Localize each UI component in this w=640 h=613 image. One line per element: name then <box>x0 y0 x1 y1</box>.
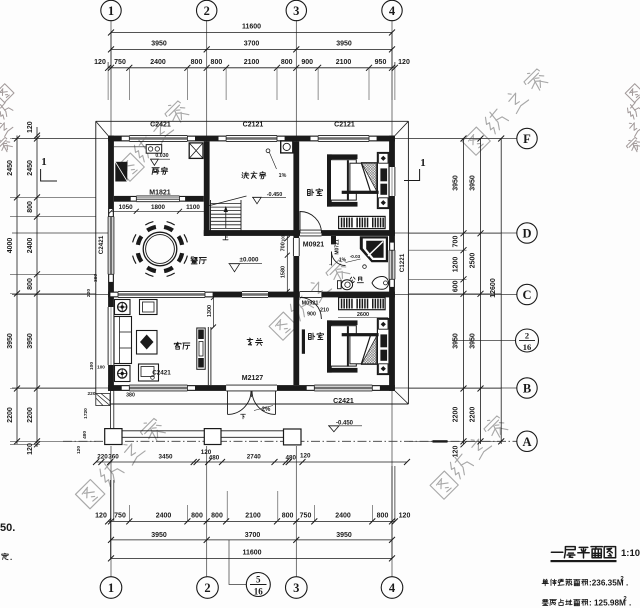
svg-text:1100: 1100 <box>186 204 200 211</box>
svg-text:: 125.98M: : 125.98M <box>589 599 626 608</box>
svg-text:3950: 3950 <box>453 175 460 191</box>
hall TV unit and partition <box>197 328 205 369</box>
svg-text:F: F <box>523 132 531 146</box>
watermark left edge <box>0 84 14 103</box>
svg-text:800: 800 <box>27 201 34 213</box>
svg-text:950: 950 <box>375 59 387 66</box>
svg-text:C2421: C2421 <box>152 370 171 377</box>
svg-text:C2121: C2121 <box>243 122 264 129</box>
svg-text:800: 800 <box>377 512 389 519</box>
svg-text:5: 5 <box>256 575 261 585</box>
svg-text:D: D <box>522 227 531 241</box>
svg-text:120: 120 <box>76 446 82 454</box>
svg-text:12600: 12600 <box>490 278 497 298</box>
svg-text:M0921: M0921 <box>302 301 319 307</box>
svg-text:120: 120 <box>94 59 106 66</box>
svg-text:1300: 1300 <box>207 305 213 317</box>
eave outline <box>96 120 409 122</box>
svg-text:3950: 3950 <box>470 333 477 349</box>
svg-text:220: 220 <box>86 289 92 297</box>
svg-text:M0921: M0921 <box>303 242 325 249</box>
svg-text:1200: 1200 <box>453 257 460 273</box>
wardrobe bedroom 2 <box>339 298 386 310</box>
svg-text:3950: 3950 <box>453 333 460 349</box>
axis bubble F right <box>517 128 537 148</box>
section bubble 5/16 bottom <box>246 573 270 597</box>
svg-text:100: 100 <box>280 234 285 242</box>
svg-text:2740: 2740 <box>247 454 262 461</box>
svg-text:1: 1 <box>41 156 47 168</box>
svg-text:C2421: C2421 <box>98 235 105 254</box>
svg-text:1050: 1050 <box>119 204 134 211</box>
svg-text:480: 480 <box>285 455 296 462</box>
svg-text:3950: 3950 <box>7 333 14 349</box>
svg-text:2200: 2200 <box>453 407 460 423</box>
svg-text:800: 800 <box>191 59 203 66</box>
watermark diagonal top-right <box>462 127 490 155</box>
bed bedroom 2 <box>377 319 389 375</box>
axis bubble 2 bottom <box>197 577 219 599</box>
svg-text:120: 120 <box>300 453 311 460</box>
left dimension columns <box>16 136 18 445</box>
svg-text:360: 360 <box>108 454 119 461</box>
svg-text:3950: 3950 <box>27 333 34 349</box>
svg-text:220: 220 <box>87 391 95 397</box>
watermark diagonal center <box>269 312 297 340</box>
svg-text:3700: 3700 <box>244 40 260 47</box>
interior wall kitchen south with sliding door M1821 <box>114 196 136 202</box>
svg-text:2100: 2100 <box>244 59 260 66</box>
label laundry <box>242 172 249 178</box>
watermark diagonal top-left <box>116 153 144 181</box>
svg-text:1%: 1% <box>279 173 287 179</box>
label bedroom 1 <box>308 189 314 195</box>
stairs <box>210 200 212 231</box>
svg-text:750: 750 <box>114 59 126 66</box>
top dimension rows <box>111 32 392 34</box>
svg-text:750: 750 <box>300 512 312 519</box>
section line 2-16 <box>452 340 516 342</box>
right dimension columns <box>463 139 465 445</box>
watermark diagonal bottom-right <box>430 471 458 499</box>
dining round table with chairs <box>143 232 177 266</box>
svg-text:2100: 2100 <box>336 59 352 66</box>
label dining <box>191 257 197 264</box>
svg-text:.: . <box>629 599 631 608</box>
svg-text:2600: 2600 <box>357 312 369 318</box>
svg-text:0.030: 0.030 <box>155 153 168 159</box>
svg-text:700: 700 <box>453 236 460 248</box>
interior wall axis 3 with bathroom door opening <box>293 141 299 238</box>
svg-text:3700: 3700 <box>245 532 261 539</box>
kitchen fixtures (flue, hob, fridge, level mark) <box>189 143 203 159</box>
svg-text:2100: 2100 <box>245 512 261 519</box>
watermark right edge <box>625 84 640 103</box>
svg-text:800: 800 <box>282 512 294 519</box>
svg-text:1720: 1720 <box>83 408 89 419</box>
interior wall D axis with door M0921 <box>204 230 300 236</box>
svg-text:800: 800 <box>191 512 203 519</box>
axis line C <box>12 294 108 296</box>
axis bubble A right <box>517 431 537 451</box>
exterior wall bottom (B axis) with windows and entrance M2127 <box>108 385 129 391</box>
svg-text:2200: 2200 <box>7 407 14 423</box>
svg-text:M1821: M1821 <box>149 190 171 197</box>
svg-text:2450: 2450 <box>27 160 34 176</box>
svg-text:1: 1 <box>420 157 426 169</box>
axis bubble 1 top <box>101 0 121 20</box>
svg-text:120: 120 <box>453 446 460 458</box>
svg-text:120: 120 <box>95 512 107 519</box>
hall dim 1300 <box>213 297 215 327</box>
axis line 3 <box>295 20 297 141</box>
axis bubble D right <box>517 223 537 243</box>
svg-text:800: 800 <box>211 59 223 66</box>
svg-text:C2421: C2421 <box>150 122 171 129</box>
section line 5-16 connector <box>229 540 246 585</box>
svg-text:1800: 1800 <box>151 204 166 211</box>
svg-text::236.35M: :236.35M <box>589 579 624 588</box>
svg-text:900: 900 <box>307 312 316 318</box>
axis bubble 3 top <box>286 0 306 20</box>
section bubble 2/16 right <box>516 329 539 352</box>
svg-text:±0.000: ±0.000 <box>240 257 259 264</box>
entrance double door M2127 with swing <box>228 391 252 415</box>
svg-text:3950: 3950 <box>336 532 352 539</box>
svg-text:3: 3 <box>293 4 299 18</box>
svg-text:380: 380 <box>126 392 135 398</box>
interior wall axis 2 (kitchen/laundry divider) <box>204 141 210 236</box>
title block 一层平面图 1:100 <box>551 551 562 553</box>
svg-text:11600: 11600 <box>242 549 261 556</box>
svg-text:3: 3 <box>293 581 299 595</box>
svg-text:120: 120 <box>399 512 411 519</box>
bed bedroom 1 <box>377 153 389 209</box>
bathroom fixtures (shower, toilet, sink, drain) <box>360 236 388 262</box>
axis line F <box>12 138 108 140</box>
svg-text:M0721: M0721 <box>335 239 341 255</box>
exterior wall top (F axis) with windows C2421/C2121/C2121 <box>108 136 129 142</box>
wardrobe bedroom 1 <box>339 216 386 228</box>
label living room <box>174 342 181 349</box>
svg-text:2: 2 <box>204 581 210 595</box>
terrace edge dash <box>433 440 448 442</box>
svg-text:3950: 3950 <box>470 175 477 191</box>
svg-text:800: 800 <box>281 59 293 66</box>
svg-text:2400: 2400 <box>150 59 166 66</box>
bathroom stub wall <box>331 236 336 245</box>
svg-text:2: 2 <box>525 331 529 341</box>
svg-text:220: 220 <box>97 454 108 461</box>
axis bubble C right <box>517 284 537 304</box>
svg-text:480: 480 <box>82 431 88 439</box>
svg-text:600: 600 <box>453 280 460 292</box>
svg-text:3450: 3450 <box>158 454 173 461</box>
axis line D <box>12 232 108 234</box>
svg-text:1580: 1580 <box>280 266 286 278</box>
living room furniture (sofa set, tables) <box>115 300 131 315</box>
axis bubble 1 bottom <box>100 577 122 599</box>
axis bubble 2 top <box>197 0 217 20</box>
svg-text:16: 16 <box>523 342 532 352</box>
svg-text:2400: 2400 <box>27 238 34 254</box>
svg-text:.: . <box>10 553 12 562</box>
interior wall C axis with opening/pass and door M0921 <box>108 292 118 298</box>
label bedroom 2 <box>309 333 315 339</box>
kitchen dim row <box>111 210 207 212</box>
svg-text:4: 4 <box>389 581 396 595</box>
laundry fixtures (washer, drain) <box>281 141 293 153</box>
left edge text 定. <box>2 553 8 560</box>
svg-text:2450: 2450 <box>7 160 14 176</box>
svg-text:1:100: 1:100 <box>621 548 640 559</box>
svg-text:C1221: C1221 <box>399 253 406 272</box>
porch slab and columns <box>105 430 301 432</box>
svg-text:4: 4 <box>389 4 396 18</box>
svg-text:1%: 1% <box>339 258 347 264</box>
door M0921 bedroom 2 swing <box>300 297 322 319</box>
svg-text:3950: 3950 <box>151 40 167 47</box>
bottom dimension rows <box>96 461 407 463</box>
svg-text:A: A <box>522 435 531 449</box>
svg-text:16: 16 <box>254 587 264 597</box>
axis bubble 3 bottom <box>286 577 308 599</box>
svg-text:120: 120 <box>27 443 34 455</box>
svg-text:120: 120 <box>398 59 410 66</box>
svg-text:210: 210 <box>320 308 329 314</box>
svg-text:C2421: C2421 <box>333 398 354 405</box>
svg-text:B: B <box>523 382 531 396</box>
svg-text:800: 800 <box>27 278 34 290</box>
axis bubble B right <box>517 378 537 398</box>
axis line 4 <box>391 20 393 136</box>
svg-text:2200: 2200 <box>470 407 477 423</box>
svg-text:100: 100 <box>89 362 95 370</box>
exterior wall left (axis 1) with window C2421 <box>108 136 114 217</box>
svg-text:120: 120 <box>27 121 34 133</box>
svg-text:3950: 3950 <box>336 40 352 47</box>
svg-text:-0.03: -0.03 <box>350 254 361 259</box>
label bathroom <box>350 277 355 282</box>
svg-text:C: C <box>522 288 531 302</box>
svg-text:2400: 2400 <box>156 512 172 519</box>
svg-text:M2127: M2127 <box>242 375 264 382</box>
axis line 1 <box>110 20 112 136</box>
watermark diagonal bottom-left <box>76 480 105 509</box>
svg-text:2: 2 <box>204 4 210 18</box>
svg-text:3950: 3950 <box>151 532 167 539</box>
svg-text:50.: 50. <box>0 522 15 534</box>
svg-text:2200: 2200 <box>27 407 34 423</box>
svg-text:1: 1 <box>108 4 114 18</box>
svg-text:900: 900 <box>301 59 313 66</box>
hall dim 700/1580 <box>286 236 288 294</box>
axis line 2 <box>206 20 208 141</box>
svg-text:480: 480 <box>209 455 220 462</box>
svg-text:.: . <box>626 579 628 588</box>
axis bubble 4 bottom <box>381 577 403 599</box>
svg-text:750: 750 <box>114 512 126 519</box>
svg-text:800: 800 <box>211 512 223 519</box>
svg-text:2500: 2500 <box>470 253 477 269</box>
door M0921 bedroom 1 swing <box>300 212 322 234</box>
axis bubble 4 top <box>382 0 402 20</box>
axis line B <box>12 387 108 389</box>
svg-text:4000: 4000 <box>7 238 14 254</box>
svg-text:2400: 2400 <box>335 512 351 519</box>
label kitchen <box>152 168 159 175</box>
label hall <box>247 338 253 345</box>
axis line A dash-dot <box>63 440 517 442</box>
svg-text:11600: 11600 <box>242 24 261 31</box>
svg-text:700: 700 <box>280 242 286 251</box>
svg-text:100: 100 <box>97 365 105 370</box>
svg-text:C2121: C2121 <box>334 122 355 129</box>
svg-text:1: 1 <box>108 581 114 595</box>
exterior wall right (axis 4) with windows <box>389 136 395 167</box>
